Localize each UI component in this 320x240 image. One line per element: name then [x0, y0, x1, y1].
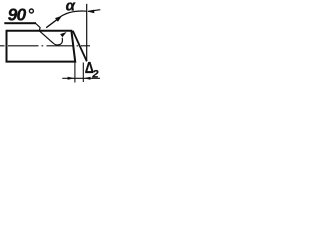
alpha arc: [60, 11, 86, 17]
underline of 90 deg: [4, 22, 36, 24]
inclined cut diagonal: [73, 31, 87, 62]
right extension line: [82, 63, 84, 83]
curved leader arrow into corner: [39, 31, 62, 45]
alpha right arrowhead: [87, 10, 94, 14]
center line (dash-dot): [0, 45, 90, 47]
bar outline: [6, 31, 76, 62]
delta2 left arrowhead (points right): [68, 77, 75, 80]
alpha right arrow: [88, 10, 100, 12]
curved leader arrowhead: [60, 32, 67, 37]
delta2 dimension line: [62, 77, 100, 79]
delta2 right arrowhead (points left): [84, 77, 91, 80]
bent leader from underline: [36, 24, 40, 31]
alpha arc left arrow tail: [46, 18, 59, 27]
svg-text:90: 90: [8, 4, 27, 24]
svg-text:2: 2: [91, 68, 98, 80]
left extension line: [74, 63, 76, 83]
vertical reference line: [86, 4, 88, 61]
background: [0, 0, 118, 91]
alpha arc left arrowhead: [55, 16, 62, 22]
degree mark: [29, 9, 33, 13]
